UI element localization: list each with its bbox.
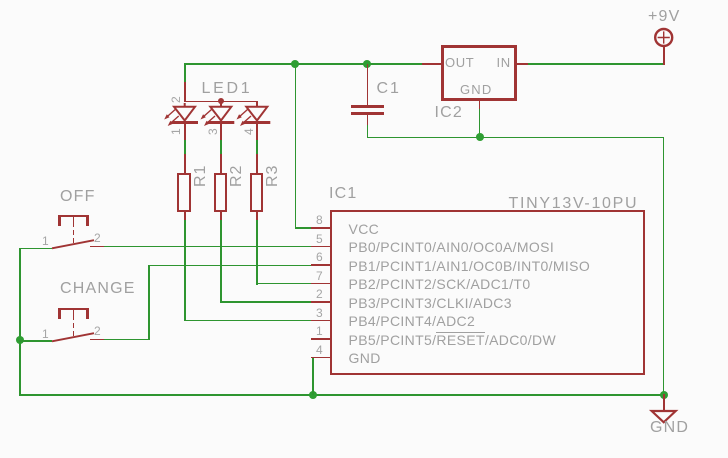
capacitor C1 upper plate bbox=[351, 105, 385, 108]
label R1 bbox=[193, 165, 209, 187]
wire LED3 cathode to R3 bbox=[256, 139, 258, 154]
LED D3 cathode pin stub bbox=[256, 124, 258, 140]
wire CHANGE riser vertical at x=148 bbox=[148, 265, 150, 340]
wire C1 bottom lead to GND run bbox=[367, 124, 369, 138]
IC1 pin 1 stub bbox=[311, 338, 331, 340]
IC1 pin 8 stub bbox=[311, 227, 331, 229]
wire R1 bottom vertical bbox=[184, 218, 186, 321]
resistor R2 top pin stub bbox=[220, 154, 222, 174]
node junction IC2 GND / GND run bbox=[476, 133, 484, 141]
LED pin number 1 bbox=[170, 129, 182, 135]
label C1 bbox=[377, 81, 401, 97]
IC2 OUT pin stub bbox=[422, 63, 441, 65]
switch S2 CHANGE cap right tick bbox=[86, 308, 89, 319]
wire +9V net: IN pin to +9V supply corner bbox=[527, 63, 664, 65]
pin number 3 bbox=[316, 307, 323, 319]
LED D1 anode pin stub bbox=[184, 82, 186, 101]
node junction top wire / VCC branch bbox=[291, 60, 299, 68]
value label TINY13V-10PU bbox=[509, 196, 639, 212]
capacitor C1 lower plate bbox=[351, 112, 385, 115]
wire R3 to IC1 pin 7 bbox=[256, 283, 312, 285]
switch S2 CHANGE button cap bar bbox=[58, 308, 89, 311]
switch S2 CHANGE pin 2 stub bbox=[90, 339, 104, 341]
wire VCC branch horizontal into pin 8 bbox=[295, 227, 313, 229]
switch S2 CHANGE actuator diagonal bbox=[52, 333, 94, 341]
pin label GND bbox=[460, 83, 493, 96]
capacitor C1 top lead bbox=[367, 64, 369, 105]
LED pin number 2 bbox=[170, 97, 182, 103]
LED D3 anode pin stub bbox=[256, 101, 258, 106]
ground pin stub bbox=[663, 394, 665, 411]
label +9V bbox=[648, 9, 681, 25]
label R2 bbox=[229, 165, 245, 187]
resistor R1 top pin stub bbox=[184, 154, 186, 174]
pin name GND bbox=[349, 351, 381, 365]
switch S1 OFF button cap bar bbox=[58, 215, 89, 218]
wire R2 bottom vertical bbox=[220, 218, 222, 303]
switch S1 OFF plunger post bbox=[73, 217, 75, 227]
label LED1 bbox=[202, 81, 253, 97]
wire LED feed vertical drop at x=184 bbox=[184, 63, 186, 83]
wire riser to IC1 pin 6 bbox=[148, 265, 312, 267]
pin number 4 bbox=[316, 344, 323, 356]
node LED bus junction bbox=[218, 98, 224, 104]
node junction top wire / C1 branch bbox=[363, 60, 371, 68]
pin number 6 bbox=[316, 251, 323, 263]
IC1 pin 2 stub bbox=[311, 301, 331, 303]
LED D3 emission arrows bbox=[237, 110, 252, 127]
wire LED2 cathode to R2 bbox=[220, 139, 222, 154]
node junction bottom rail / GND symbol bbox=[660, 391, 668, 399]
pin number 8 bbox=[316, 214, 323, 226]
IC1 pin 3 stub bbox=[311, 320, 331, 322]
resistor R3 top pin stub bbox=[256, 154, 258, 174]
pin number 5 bbox=[316, 233, 323, 245]
LED D2 triangle and cathode bar bbox=[208, 107, 235, 123]
IC2 IN pin stub bbox=[516, 63, 528, 65]
LED D1 cathode pin stub bbox=[184, 124, 186, 140]
LED pin number 4 bbox=[243, 129, 255, 135]
wire IC2 GND pin vertical bbox=[479, 108, 481, 138]
switch S2 CHANGE plunger dash 1 bbox=[73, 323, 75, 328]
pin name PB1 bbox=[349, 259, 591, 273]
voltage regulator U2 body (IC2) bbox=[441, 45, 517, 102]
capacitor C1 bottom lead bbox=[367, 115, 369, 125]
switch S1 OFF pin number 2 bbox=[94, 232, 101, 244]
wire LED anode bus bbox=[184, 101, 257, 103]
wire OFF switch pin 2 to IC1 pin 5 bbox=[104, 246, 312, 248]
switch S1 OFF pin number 1 bbox=[42, 235, 49, 247]
power +9V pin stub bbox=[663, 47, 665, 65]
switch S2 CHANGE pin number 2 bbox=[94, 325, 101, 337]
wire VCC branch vertical at x=295 bbox=[295, 63, 297, 228]
LED pin number 3 bbox=[207, 129, 219, 135]
wire GND bottom rail horizontal bbox=[19, 394, 664, 396]
pin name PB4 bbox=[349, 314, 476, 328]
resistor R3 bottom pin stub bbox=[256, 211, 258, 220]
LED D1 emission arrows bbox=[164, 110, 179, 127]
switch S1 OFF pin 2 stub bbox=[90, 246, 104, 248]
node junction bottom rail / IC1 GND bbox=[309, 391, 317, 399]
switch S1 OFF plunger dash 2 bbox=[73, 238, 75, 243]
wire IC1 GND pin 4 down to bottom rail bbox=[312, 357, 314, 395]
switch S2 CHANGE pin number 1 bbox=[42, 328, 49, 340]
wire OFF switch pin 1 lead bbox=[19, 248, 52, 250]
switch S1 OFF plunger dash 1 bbox=[73, 230, 75, 235]
wire R1 to IC1 pin 3 bbox=[184, 320, 312, 322]
wire CHANGE switch pin 1 lead bbox=[19, 340, 52, 342]
resistor R3 body bbox=[250, 173, 263, 212]
IC1 pin 5 stub bbox=[311, 246, 331, 248]
wire R3 bottom vertical bbox=[256, 218, 258, 285]
pin label OUT bbox=[445, 56, 474, 69]
pin name VCC bbox=[349, 222, 380, 236]
switch S2 CHANGE plunger dash 2 bbox=[73, 331, 75, 336]
switch S2 CHANGE cap left tick bbox=[58, 308, 61, 319]
IC U1 body (IC1 ATtiny13) bbox=[330, 210, 645, 375]
pin name PB5 bbox=[349, 333, 557, 347]
LED D2 emission arrows bbox=[201, 110, 216, 127]
label IC2 bbox=[435, 105, 464, 121]
LED D2 cathode pin stub bbox=[220, 124, 222, 140]
label CHANGE bbox=[60, 281, 136, 297]
label R3 bbox=[265, 165, 281, 187]
node junction left rail / CHANGE pin 1 bbox=[16, 336, 24, 344]
switch S1 OFF actuator diagonal bbox=[52, 240, 94, 248]
resistor R2 body bbox=[214, 173, 227, 212]
wire GND right rail vertical bbox=[663, 137, 665, 396]
resistor R2 bottom pin stub bbox=[220, 211, 222, 220]
RESET overline bbox=[436, 332, 484, 333]
pin number 1 bbox=[316, 325, 323, 337]
pin name PB3 bbox=[349, 296, 512, 310]
IC2 GND pin stub bbox=[479, 101, 481, 109]
switch S1 OFF cap left tick bbox=[58, 215, 61, 226]
LED D2 anode pin stub bbox=[220, 101, 222, 106]
pin name PB0 bbox=[349, 240, 555, 254]
LED D1 triangle and cathode bar bbox=[172, 103, 199, 123]
resistor R1 bottom pin stub bbox=[184, 211, 186, 220]
power +9V supply circle symbol bbox=[655, 29, 672, 46]
switch S2 CHANGE plunger post bbox=[73, 310, 75, 320]
wire GND left rail vertical bbox=[19, 248, 21, 396]
IC1 pin 6 stub bbox=[311, 264, 331, 266]
wire R2 to IC1 pin 2 bbox=[220, 301, 312, 303]
LED D3 triangle and cathode bar bbox=[244, 107, 270, 123]
label GND bbox=[650, 420, 689, 436]
ground GND triangle symbol bbox=[652, 411, 676, 422]
wire CHANGE switch pin 2 run bbox=[104, 339, 150, 341]
pin name PB2 bbox=[349, 277, 531, 291]
switch S1 OFF cap right tick bbox=[86, 215, 89, 226]
pin label IN bbox=[497, 56, 511, 69]
label IC1 bbox=[329, 186, 358, 202]
wire +5V net: regulator OUT to LED feed corner bbox=[184, 63, 423, 65]
resistor R1 body bbox=[177, 173, 190, 212]
IC1 pin 7 stub bbox=[311, 283, 331, 285]
wire LED1 cathode to R1 bbox=[184, 139, 186, 154]
label OFF bbox=[60, 189, 96, 205]
wire GND net horizontal C1 to right rail bbox=[367, 137, 664, 139]
IC1 pin 4 stub bbox=[311, 357, 331, 359]
pin number 2 bbox=[316, 288, 323, 300]
pin number 7 bbox=[316, 270, 323, 282]
